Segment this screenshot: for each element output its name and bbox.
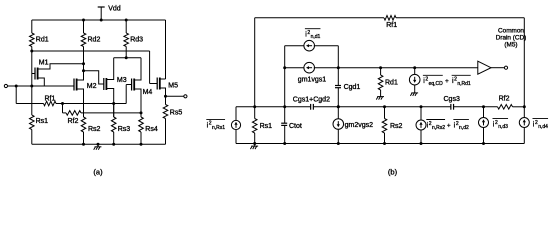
svg-text:n,d2: n,d2 [459,125,469,131]
wire: Rs1 (model) top lead [254,107,256,119]
node: Rs2 (model) junction dot [383,105,386,108]
node: Ctot junction dot [283,105,286,108]
wire: Rd2 bottom lead [83,47,85,64]
node: Rs3 rail junction dot [112,143,115,146]
resistor Rd2 [81,33,86,47]
svg-text:Rf1: Rf1 [386,22,397,29]
wire: M5 drain lead [160,78,166,80]
node: feedback line / Rs3 column junction dot [112,102,115,105]
svg-text:M1: M1 [39,60,49,67]
wire: M4 drain lead up to Rd3 node line [134,58,141,80]
wire: gm1 loop top branch left [285,45,305,47]
wire: Rd3 bottom node line [114,57,141,59]
resistor Rf2 (model) [498,105,513,110]
node: ground rail junction dot [97,143,100,146]
current source gm2vgs2 [333,119,344,130]
wire: Rf1 left lead [16,103,43,105]
wire: Rf2 line to Rs4 column [81,112,141,114]
svg-text:Rs2: Rs2 [390,123,403,130]
wire: M4 gate vertical from feedback line [125,85,127,104]
wire: M2 source lead down to Rs2 [77,89,84,117]
wire: Rd3 top lead [125,20,127,33]
wire: top supply rail [32,19,166,21]
wire: gm1 loop right vertical upper [337,46,339,86]
svg-text:(M5): (M5) [504,42,517,49]
svg-text:Rs1: Rs1 [36,118,49,125]
wire: M3 gate connection from Rd2 node [84,71,104,84]
node: M2 drain junction dot [82,69,85,72]
svg-text:(a): (a) [93,168,103,177]
wire: long feed line from Rd1 node to M5 gate drop [32,50,150,52]
wire: i2nd3 bottom lead [483,128,485,144]
wire: node line B middle segment [313,106,450,108]
node: input/Rf1 junction dot [15,85,18,88]
node: input/Rs1 junction dot [30,85,33,88]
wire: M1 source lead down to input line [38,78,45,86]
svg-text:Cgs3: Cgs3 [444,96,460,103]
wire: input node line B [236,106,311,108]
svg-text:+: + [447,122,451,129]
svg-text:M2: M2 [87,83,97,90]
svg-text:n,Rs1: n,Rs1 [212,125,225,131]
wire: gm2vgs2 bottom lead [337,129,339,144]
svg-text:n,Rs2: n,Rs2 [432,125,445,131]
svg-text:Rs3: Rs3 [118,126,131,133]
wire: Rs5 top lead [165,96,167,104]
wire: input line to M2 gate [8,85,75,87]
wire: Rs2 (model) bottom lead [384,133,386,144]
wire: Rd2 top lead [83,20,85,33]
resistor Rf1 [44,101,57,106]
svg-text:Rd3: Rd3 [130,37,143,44]
wire: i2eqCD bottom lead [414,85,416,91]
svg-text:Rf1: Rf1 [45,96,56,103]
wire: node line B right segment [454,106,498,108]
svg-text:Vdd: Vdd [108,5,121,12]
svg-text:Ctot: Ctot [289,123,302,130]
current source i2eqCD + i2nRd1 [409,74,420,85]
wire: M5 gate stub [150,83,158,85]
ground [414,90,416,93]
current source i2nd1 [304,40,315,51]
wire: Rs1 bottom lead [31,130,33,145]
svg-text:gm2vgs2: gm2vgs2 [345,122,374,129]
svg-text:Rf2: Rf2 [68,118,79,125]
node: output junction dot [164,95,167,98]
wire: node line A to common-drain stage [338,67,478,69]
svg-text:Rd1: Rd1 [385,80,398,87]
svg-text:Rs4: Rs4 [145,126,158,133]
svg-text:(b): (b) [388,168,398,177]
wire: M3 source lead down to Rs3 [106,89,113,118]
transistor M4 [131,79,133,91]
wire: Rf1 feedback top rail left segment [255,17,384,19]
input terminal [4,84,7,87]
wire: output line [166,95,184,97]
node: Vdd junction dot [100,19,103,22]
wire: M1 gate stub [32,73,35,75]
svg-text:n,d4: n,d4 [538,124,548,130]
wire: M2 drain lead up to Rd2 node [77,71,84,80]
wire: M5 source lead down to output node [160,88,166,96]
svg-text:M5: M5 [168,82,178,89]
wire: Rs3 bottom lead [113,132,115,144]
wire: Cgd1 bottom lead [337,88,339,107]
svg-text:Rs1: Rs1 [260,123,273,130]
resistor Rs1 [30,115,35,130]
node: loop right bottom junction dot [337,66,340,69]
svg-text:gm1vgs1: gm1vgs1 [298,77,327,84]
current source i2nRs1 [231,120,240,129]
resistor Rs4 [139,117,144,132]
wire: Rs2 bottom lead [83,132,85,144]
node: Rd1 bottom junction dot [30,50,33,53]
resistor Rs2 [81,117,86,132]
wire: Rd1 bottom lead [31,47,33,52]
current source i2nRs2 + i2nd2 [416,120,426,130]
node: Rd3 rail junction dot [125,19,128,22]
wire: Ctot top lead [284,107,286,123]
resistor Rf1 (model) [384,16,396,21]
svg-text:eq,CD: eq,CD [429,81,444,87]
wire: bottom ground rail (model) [236,143,524,145]
wire: i2nRs2 bottom lead [420,130,422,144]
svg-text:Cgd1: Cgd1 [344,84,361,91]
wire: Ctot bottom lead [284,125,286,143]
svg-text:Drain (CD): Drain (CD) [496,35,527,42]
node: i2nd3 junction dot [482,105,485,108]
wire: M4 gate stub [126,84,131,86]
wire: Rs4 bottom lead [140,132,142,144]
wire: Rf1 drop from input line [15,86,17,104]
wire: Rd3 bottom lead [125,47,127,58]
transistor M2 [73,79,75,91]
resistor Rs3 [111,117,116,132]
svg-text:n,d3: n,d3 [498,124,508,130]
wire: Rs1 top lead [31,86,33,115]
wire: M1 drain lead to Rd2 node [38,64,84,69]
wire: Rf2 left lead [63,112,67,114]
svg-text:M4: M4 [143,89,153,96]
transistor M3 [103,78,105,90]
wire: Rd1 (model) top lead [380,68,382,75]
op-amp U1: common-drain stage triangle [478,61,491,74]
svg-text:Rd2: Rd2 [88,37,101,44]
node: Rd2 rail junction dot [82,19,85,22]
node: Rs2 rail junction dot [82,143,85,146]
resistor Rs2 (model) [382,119,387,134]
resistor Rd1 [30,33,35,47]
wire: gm1 loop bottom branch left [285,67,305,69]
wire: M3 drain lead up to Rd3 node line [106,58,113,80]
wire: Rf1 right lead [56,103,63,105]
wire: right output column lower [523,128,525,144]
current source i2nd4 [519,118,529,128]
resistor Rd1 (model) [378,75,383,90]
capacitor Cgd1 [335,85,341,87]
wire: gm2vgs2 top lead [337,107,339,119]
svg-text:Rs2: Rs2 [88,126,101,133]
wire: Rs3 column through feedback line [113,104,115,118]
Vdd supply symbol [100,7,102,20]
output terminal [184,95,187,98]
svg-text:Rd1: Rd1 [36,37,49,44]
wire: gm1 loop bottom branch right [314,67,339,69]
svg-text:Rf2: Rf2 [499,96,510,103]
node: Rd1 (model) junction dot [379,66,382,69]
wire: i2nRs2 top lead [420,107,422,120]
node: right column junction dot [523,105,526,108]
node: Rs4 rail junction dot [140,143,143,146]
capacitor Ctot [281,122,287,124]
wire: Rf1 feedback top rail right segment [396,17,524,19]
resistor Rs1 (model) [252,119,257,134]
wire: Rd1 top lead [31,20,33,33]
wire: Rd1 (model) bottom lead [380,90,382,94]
wire: Rf2 right lead to output column [513,106,525,108]
svg-text:M3: M3 [117,77,127,84]
transistor M5 [156,78,158,90]
wire: M4 source lead down to Rs4 [134,89,141,117]
node: Rs1 input junction dot [253,105,256,108]
svg-text:Common: Common [498,27,524,34]
ground [97,144,99,147]
node: i2eqCD junction dot [413,66,416,69]
node: Rf1/Rf2 junction dot [61,102,64,105]
wire: left feedback drop to input node [254,18,256,107]
wire: Rs1 (model) bottom lead [254,133,256,144]
wire: Rf2 drop [62,104,64,113]
current source i2nd3 [479,118,489,128]
wire: M5 gate vertical [149,51,151,84]
wire: supply drop to M5 drain [165,20,167,79]
resistor Rd3 [124,33,129,47]
wire: gm1 loop top branch right [314,45,339,47]
node: loop left bottom junction dot [283,66,286,69]
wire: Rs5 bottom lead [165,119,167,145]
output terminal (model) [504,66,507,69]
resistor Rs5 [163,105,168,119]
wire: Rs2 (model) top lead [384,107,386,119]
wire: Rd2 node vertical between dots [83,64,85,71]
wire: feedback node line to M4 gate [63,103,127,105]
svg-text:n,d1: n,d1 [311,34,321,40]
wire: common-drain output lead [491,67,504,69]
node: gm2vgs2 junction dot [337,105,340,108]
wire: noise source i2nRs1 column [235,107,237,144]
wire: M1 gate bias vertical [31,51,33,86]
capacitor Cgs3 [450,104,452,110]
node: Rd3 node junction dot [125,56,128,59]
resistor Rf2 [66,111,81,116]
node: Rf2 / Rs4 column junction dot [140,111,143,114]
ground [380,94,382,97]
current source gm1vgs1 [304,62,315,73]
wire: bottom ground rail [32,143,166,145]
wire: i2eqCD top lead [414,68,416,75]
node: model ground rail dots [253,142,256,145]
node: M1 drain / Rd2 junction dot [82,62,85,65]
svg-text:+: + [445,78,449,85]
capacitor Cgs1+Cgd2 [310,104,312,110]
node: Cgd1 column input-line junction dot [337,105,340,108]
wire: gm1 loop left vertical [284,46,286,107]
svg-text:n,Rd1: n,Rd1 [457,81,471,87]
ground [254,144,256,147]
transistor M1 [34,68,36,80]
svg-text:Rs5: Rs5 [170,110,183,117]
node: i2nRs2 junction dot [420,105,423,108]
svg-text:Cgs1+Cgd2: Cgs1+Cgd2 [293,97,330,104]
wire: right output column upper [523,18,525,118]
wire: i2nd3 top lead [483,107,485,118]
